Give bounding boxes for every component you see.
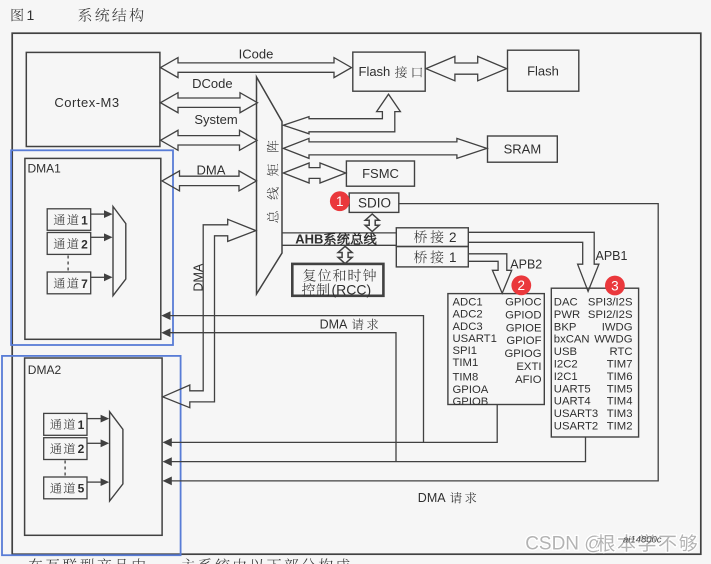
svg-text:DMA: DMA <box>418 491 446 505</box>
box DMA2 通道1 <box>44 413 87 435</box>
svg-text:2: 2 <box>78 442 85 456</box>
blue highlight rect DMA1 <box>11 150 173 345</box>
box SRAM <box>488 136 558 162</box>
svg-text:1: 1 <box>27 7 35 23</box>
bottom caption (clipped) <box>29 558 350 564</box>
svg-text:SPI2/I2S: SPI2/I2S <box>588 309 633 321</box>
wire matrix-SRAM channel arrow <box>283 138 487 158</box>
svg-text:Flash: Flash <box>527 64 559 79</box>
svg-text:USART3: USART3 <box>554 408 598 420</box>
svg-text:1: 1 <box>78 418 85 432</box>
box Cortex-M3 <box>26 52 160 146</box>
wire AHB-RCC double arrow <box>338 246 352 263</box>
svg-text:TIM3: TIM3 <box>607 408 633 420</box>
svg-text:WWDG: WWDG <box>594 334 632 346</box>
arrow 通道1 to mux2 <box>87 418 102 420</box>
DMA2 mux funnel <box>110 412 123 501</box>
dashed line between DMA2 通道2 and 通道5 <box>64 461 66 477</box>
box DMA2 <box>25 358 163 535</box>
svg-text:GPIOE: GPIOE <box>506 322 542 334</box>
svg-text:Flash: Flash <box>359 64 391 79</box>
box DMA1 通道1 <box>47 209 90 231</box>
svg-text:2: 2 <box>449 230 457 245</box>
svg-text:2: 2 <box>518 278 526 293</box>
svg-text:DCode: DCode <box>192 76 232 91</box>
svg-text:System: System <box>194 112 237 127</box>
blue highlight rect DMA2 <box>2 356 181 555</box>
box DMA1 通道7 <box>47 272 90 294</box>
svg-text:SPI3/I2S: SPI3/I2S <box>588 297 633 309</box>
svg-text:TIM6: TIM6 <box>607 371 633 383</box>
svg-text:GPIOA: GPIOA <box>453 384 489 396</box>
svg-text:FSMC: FSMC <box>362 166 399 181</box>
svg-text:RTC: RTC <box>609 346 632 358</box>
svg-text:1: 1 <box>336 194 344 209</box>
dashed line between DMA1 通道2 and 通道7 <box>67 256 69 272</box>
box DMA1 <box>25 158 161 339</box>
svg-text:APB1: APB1 <box>596 249 628 263</box>
box 桥接1 <box>396 247 468 267</box>
svg-text:USB: USB <box>554 346 577 358</box>
svg-text:1: 1 <box>81 213 88 227</box>
wire SDIO-AHB double arrow <box>365 214 379 232</box>
badge red circle 2 <box>511 275 531 295</box>
badge red circle 3 <box>605 276 625 296</box>
wire DMA bus arrow DMA1-matrix <box>162 171 257 191</box>
DMA1 mux funnel <box>113 207 126 296</box>
svg-text:DMA: DMA <box>320 318 348 332</box>
svg-text:5: 5 <box>78 482 85 496</box>
wire DMA request APB2-DMA1/DMA2 <box>164 316 498 443</box>
svg-text:CSDN @: CSDN @ <box>525 534 603 555</box>
svg-text:GPIOD: GPIOD <box>505 309 541 321</box>
svg-text:ADC2: ADC2 <box>453 309 483 321</box>
svg-text:SDIO: SDIO <box>358 196 391 211</box>
svg-text:BKP: BKP <box>554 321 577 333</box>
wire 桥接2 to APB1 hollow arrow <box>468 232 599 291</box>
svg-text:DMA1: DMA1 <box>28 162 62 176</box>
svg-text:ADC1: ADC1 <box>453 297 483 309</box>
wire vertical DMA bus matrix-DMA2 <box>163 219 256 407</box>
svg-text:PWR: PWR <box>554 309 580 321</box>
box APB2 peripherals <box>448 294 544 405</box>
svg-text:2: 2 <box>81 237 88 251</box>
box Flash <box>508 50 579 91</box>
box Flash 接口 <box>353 52 425 91</box>
svg-text:TIM5: TIM5 <box>607 383 633 395</box>
arrow 通道7 to mux <box>91 276 105 278</box>
svg-text:3: 3 <box>611 278 619 293</box>
wire System bus arrow <box>161 130 258 150</box>
arrow 通道2 to mux <box>91 236 105 238</box>
svg-text:USART1: USART1 <box>453 333 497 345</box>
arrow 通道2 to mux2 <box>87 442 102 444</box>
badge red circle 1 <box>330 191 350 211</box>
wire ICode bus arrow <box>161 58 352 78</box>
svg-text:GPIOG: GPIOG <box>504 348 541 360</box>
wire matrix-FSMC double arrow <box>283 163 346 183</box>
box SDIO <box>349 193 399 212</box>
svg-text:UART5: UART5 <box>554 383 591 395</box>
wire DMA request SDIO-DMA2 <box>164 204 659 481</box>
svg-text:I2C2: I2C2 <box>554 359 578 371</box>
svg-text:TIM2: TIM2 <box>607 421 633 433</box>
box APB1 peripherals <box>551 288 638 437</box>
svg-text:GPIOB: GPIOB <box>453 396 489 408</box>
box DMA2 通道2 <box>44 438 87 460</box>
svg-text:ADC3: ADC3 <box>453 321 483 333</box>
svg-text:SPI1: SPI1 <box>453 345 478 357</box>
wire DMA request APB1-DMA1/DMA2 <box>164 333 586 462</box>
svg-text:DAC: DAC <box>554 297 578 309</box>
svg-text:GPIOF: GPIOF <box>506 335 541 347</box>
wire Flash interface - Flash double arrow <box>426 56 507 80</box>
svg-text:TIM1: TIM1 <box>453 357 479 369</box>
svg-text:ai14800c: ai14800c <box>623 535 662 546</box>
svg-text:AHB: AHB <box>295 232 323 247</box>
wire DCode bus arrow <box>161 93 258 113</box>
svg-text:ICode: ICode <box>239 47 274 62</box>
svg-text:TIM8: TIM8 <box>453 371 479 383</box>
wire matrix-FlashIF elbow arrow <box>283 94 400 134</box>
arrow 通道1 to mux <box>91 213 105 215</box>
wire 桥接1 to APB2 hollow arrow <box>468 254 511 293</box>
svg-text:bxCAN: bxCAN <box>554 334 590 346</box>
bus matrix 总线矩阵 <box>257 77 283 294</box>
box 复位和时钟控制(RCC) <box>292 264 383 296</box>
svg-text:IWDG: IWDG <box>602 321 633 333</box>
box FSMC <box>346 161 414 186</box>
svg-text:Cortex-M3: Cortex-M3 <box>54 95 119 110</box>
svg-text:GPIOC: GPIOC <box>505 297 541 309</box>
svg-text:USART2: USART2 <box>554 421 598 433</box>
svg-text:TIM4: TIM4 <box>607 396 633 408</box>
svg-text:APB2: APB2 <box>510 258 542 272</box>
title 图1 系统结构 <box>12 9 24 22</box>
svg-text:DMA2: DMA2 <box>28 363 62 377</box>
svg-text:(RCC): (RCC) <box>332 282 372 298</box>
svg-text:DMA: DMA <box>197 163 226 178</box>
box DMA1 通道2 <box>47 233 90 255</box>
svg-text:7: 7 <box>81 277 88 291</box>
svg-text:EXTI: EXTI <box>516 361 541 373</box>
svg-text:TIM7: TIM7 <box>607 359 633 371</box>
svg-text:1: 1 <box>449 250 457 265</box>
svg-text:DMA: DMA <box>191 263 205 291</box>
svg-text:AFIO: AFIO <box>515 374 542 386</box>
wire AHB system bus band <box>282 232 396 234</box>
svg-text:I2C1: I2C1 <box>554 371 578 383</box>
box 桥接2 <box>396 228 468 247</box>
box DMA2 通道5 <box>44 477 87 499</box>
svg-text:UART4: UART4 <box>554 396 591 408</box>
arrow 通道5 to mux2 <box>87 481 102 483</box>
svg-text:SRAM: SRAM <box>504 142 542 157</box>
